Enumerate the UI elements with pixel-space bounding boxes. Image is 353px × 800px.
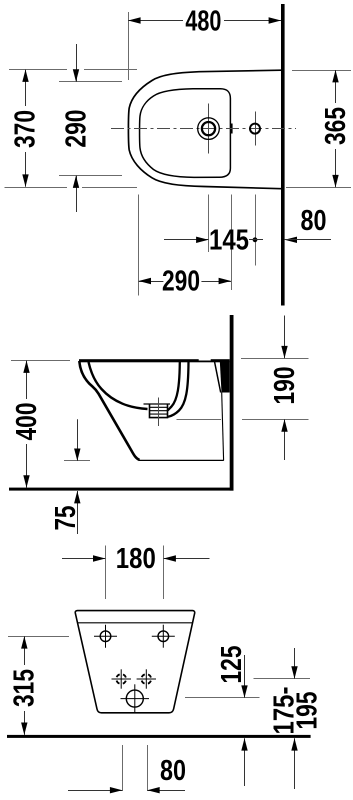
svg-text:80: 80 [160,755,186,787]
dim 180 tail left [62,558,105,560]
ext line hanging front (290 bottom dim left) [138,195,140,296]
dim 145 tail left [164,239,209,241]
dim 180 tail right [164,558,210,560]
wall (plan view, thick bar right side) [281,4,285,306]
svg-text:190: 190 [269,367,301,405]
dim 75 lower outside segment (below floor) [77,491,79,534]
dim 80 arrow left (outside) [147,787,159,793]
ext line 365 bottom (right of wall) [286,187,351,189]
dim 290 bottom arrow right [219,278,231,284]
dim 80 tail right [285,239,331,241]
dim 400 arrow down [23,475,29,487]
drain outlet hole (front view) [121,684,150,713]
dim 75 upper outside segment [77,419,79,461]
ext line hanging basin back [231,195,233,291]
dim 80 tail left [68,790,122,792]
svg-text:75: 75 [50,506,82,531]
dim 370 line top segment [25,70,27,107]
dim 180 arrow right (outside) [93,555,105,561]
dim 190 lower outside segment [284,419,286,460]
dim 365 line top segment [335,70,337,103]
dim 315 line bottom segment [24,711,26,735]
small mounting hole right (dashed) [137,669,156,688]
dim 190 arrow down (outside) [281,346,287,358]
ext line 80 bottom left (below floor) [122,745,124,791]
ext line 370 top [9,69,137,71]
dim 180 arrow left (outside) [164,555,176,561]
basin interior front wall [89,362,148,409]
dim 175-195 upper segment [294,648,296,679]
floor (front view) [7,735,311,738]
dim 480 arrow left [128,17,140,23]
dim 290 arrow down (outside) [73,69,79,81]
bidet back black section against wall [220,361,230,393]
back ceramic inner edge [215,362,221,393]
drain hole outer circle [198,118,220,140]
fixing hole (plan) circle [250,124,260,134]
dim 315 arrow down [21,723,27,735]
bidet back lower edge [222,393,224,461]
fixing hole (plan) crosshair vertical [255,112,257,146]
ext line 190 bottom left part [177,419,222,421]
dim 75 arrow down (outside) [74,449,80,461]
rim notch (fixing hole slot, white) [199,359,211,361]
dim 365 arrow down [332,175,338,187]
ext line 80 bottom right (below floor) [147,745,149,791]
ext line 190 top (right of wall) [241,358,309,360]
small mounting hole left (dashed) [112,669,132,688]
ext line hanging fixing hole [255,195,257,266]
basin interior back wall outer line [168,362,189,417]
dim 290 lower outside segment [76,176,78,213]
dim 290 upper outside segment [76,44,78,82]
svg-text:195: 195 [291,692,323,730]
dim 365 arrow up [332,70,338,82]
ext line 365 top (right of wall) [292,70,351,72]
trapezoid body outline [75,611,194,713]
ext line 190 bottom right part [242,419,309,421]
dim 80 arrow left at wall (outside) [285,237,297,243]
dim 175-195 lower segment (below floor) [294,738,296,789]
dim 400 line bottom segment [26,444,28,488]
dim 290 arrow up (outside) [73,176,79,188]
dim 125 arrow down (outside) [241,685,247,697]
outer rim outline (plan) [128,70,281,189]
dim 80 arrow right (outside) [110,787,122,793]
dim 145 dot terminator [253,237,258,242]
bidet bottom edge line [139,459,224,461]
dim 480 line right segment [224,20,281,22]
bidet front lip and underside outline [79,361,139,460]
dim 400 arrow up [23,361,29,373]
dim 145 dot tail [249,239,263,241]
svg-text:125: 125 [216,646,248,684]
ext line hanging drain center [208,195,210,253]
ext line 315 top [8,636,69,638]
dim 315 arrow up [21,636,27,648]
fixing hole left (front view) [94,625,117,648]
dim 370 arrow down [22,174,28,186]
drain hole inner circle [202,122,215,135]
ext line 290 bottom (plan left) [59,175,122,177]
dim 75 arrow up (outside) [74,491,80,503]
dim 370 arrow up [22,70,28,82]
wall (side view) [230,315,234,491]
basin back rim tick on centerline [231,124,233,134]
basin interior back wall inner line [168,362,180,411]
dim 365 line bottom segment [335,149,337,187]
centerline (plan, dash-dot) [111,128,296,130]
drain sump box [150,404,168,418]
ext line 370 bottom [5,187,138,189]
ext line 175-195 top (small holes level) [254,678,311,680]
dim 125 arrow up at floor [241,738,247,750]
dim 290 bottom arrow left [139,278,151,284]
svg-text:315: 315 [9,669,41,707]
dim 145 arrow right (outside) [196,237,208,243]
dim 175-195 arrow down (outside) [291,666,297,678]
svg-text:400: 400 [11,403,43,441]
rim line inside trapezoid [78,622,192,624]
wire ext line 480 left [128,12,130,80]
drain hole crosshair vertical [208,104,210,154]
dim 190 upper outside segment [284,316,286,359]
dim 480 arrow right [269,17,281,23]
floor (side view) [9,488,234,491]
ext line 290 top (plan left) [59,81,122,83]
svg-text:145: 145 [209,224,249,256]
inner basin outline (plan) [140,89,231,178]
dim 400 line top segment [26,361,28,400]
svg-text:480: 480 [185,5,221,37]
svg-text:370: 370 [9,110,41,148]
fixing hole right (front view) [152,625,175,648]
dim 315 line top segment [24,636,26,665]
svg-text:290: 290 [61,110,93,148]
drain sump centerline vertical [158,398,160,427]
svg-text:290: 290 [162,266,200,298]
dim 125 upper segment [244,655,246,698]
ext line 180 right [163,546,165,600]
drain sump top line [144,403,171,405]
svg-text:80: 80 [301,205,327,237]
dim 370 line bottom segment [25,152,27,187]
dim 190 arrow up (outside) [281,419,287,431]
drain sump ladder lines [150,407,168,414]
dim 125 lower segment (below floor) [244,738,246,786]
svg-text:180: 180 [116,543,156,575]
rim top thick line [79,359,230,362]
dim 175-195 arrow up at floor [291,738,297,750]
ext line 400 top [11,360,70,362]
dim 480 line left segment [128,20,183,22]
ext line 75 (bidet bottom) [64,460,90,462]
dim 80 tail right [147,790,185,792]
ext line 125 bottom (drain hole level) [185,697,260,699]
ext line 180 left [105,546,107,600]
svg-text:365: 365 [320,107,352,145]
dim 290 bottom line [139,281,231,283]
